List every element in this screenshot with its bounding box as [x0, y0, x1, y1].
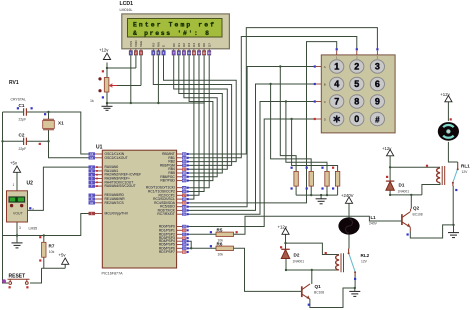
svg-text:5: 5 — [354, 79, 359, 89]
svg-text:D2: D2 — [294, 253, 300, 258]
svg-text:RA5/AN4/SS/C2OUT: RA5/AN4/SS/C2OUT — [105, 184, 136, 188]
svg-text:RV1: RV1 — [9, 80, 19, 86]
wire D2 bottom / RL2 coil bottom rail — [286, 259, 339, 270]
svg-text:Enter Temp ref: Enter Temp ref — [133, 22, 214, 29]
svg-text:CRYSTAL: CRYSTAL — [11, 98, 26, 102]
svg-text:OSC2/CLKOUT: OSC2/CLKOUT — [105, 156, 128, 160]
svg-text:240V: 240V — [369, 222, 378, 226]
LCD LCD1 body — [122, 14, 230, 49]
relay RL2 switch — [348, 249, 350, 253]
svg-text:R7: R7 — [49, 244, 55, 249]
svg-text:D6: D6 — [202, 43, 206, 47]
wire PIC RD4 jog to R6 net — [189, 241, 192, 248]
wire +12v to fan — [447, 102, 449, 121]
svg-text:B: B — [324, 82, 326, 86]
node keypad row C tap — [285, 100, 287, 102]
wire +240V to lamp L1 — [348, 204, 350, 219]
power +240V above lamp — [341, 193, 354, 203]
svg-text:A: A — [324, 65, 326, 69]
wire LCD D7 to PIC RB3 — [189, 56, 210, 188]
relay RL1 switch — [457, 162, 459, 169]
svg-text:D0: D0 — [172, 43, 176, 47]
microcontroller U1 body — [102, 150, 176, 268]
capacitor C2 — [24, 138, 27, 145]
svg-text:L1: L1 — [371, 215, 377, 220]
wire RL2 switch to ground — [354, 276, 356, 292]
diode D1 1N4001 — [386, 180, 394, 182]
svg-text:LM35: LM35 — [29, 227, 38, 231]
wire keypad col1 to PIC RB2 — [189, 42, 337, 203]
resistor R5 — [216, 232, 234, 236]
wire LCD D6 to PIC RB4 — [189, 56, 205, 192]
svg-text:D3: D3 — [187, 43, 191, 47]
potentiometer RV1 terminal dots — [98, 77, 101, 80]
svg-text:+240V: +240V — [341, 193, 354, 198]
svg-text:D4: D4 — [192, 43, 196, 47]
node VSS on ground rail — [130, 102, 132, 104]
svg-text:U1: U1 — [96, 145, 103, 151]
svg-text:7: 7 — [334, 97, 339, 107]
wire LCD D4 to PIC RB6 — [189, 56, 194, 200]
svg-text:LM016L: LM016L — [120, 8, 133, 12]
svg-text:RS: RS — [151, 43, 155, 47]
svg-text:9: 9 — [375, 97, 380, 107]
svg-text:C1: C1 — [19, 103, 25, 108]
svg-text:RW: RW — [157, 42, 161, 47]
wire LCD D5 to PIC RB5 — [189, 56, 200, 196]
svg-text:MCLR/Vpp/THV: MCLR/Vpp/THV — [105, 212, 129, 216]
wire +12v to D2 / RL2 coil junction — [286, 234, 340, 255]
svg-text:Q2: Q2 — [413, 206, 420, 211]
wire ground rail under RV1 — [107, 102, 205, 104]
resistor pulldown 1 — [294, 171, 298, 186]
svg-text:0: 0 — [354, 114, 359, 124]
LCD pin number boxes — [129, 51, 211, 56]
wire pulldown resistors to ground rail — [296, 186, 338, 199]
wire X1 pins — [48, 112, 50, 141]
resistor pulldown 3 — [325, 171, 329, 186]
wire reset to R7 bottom net — [30, 268, 42, 283]
state square at C2 — [39, 143, 41, 145]
svg-text:R5: R5 — [217, 227, 223, 232]
svg-text:R6: R6 — [217, 241, 223, 246]
relay RL1 coil — [437, 168, 440, 183]
wire RL1 switch to emitter/ground junction — [452, 186, 454, 225]
svg-text:3: 3 — [19, 226, 21, 230]
state squares at C1 — [17, 107, 19, 109]
wire R6 to Q1 base — [234, 248, 302, 291]
svg-text:D1: D1 — [399, 183, 405, 188]
svg-text:X1: X1 — [58, 121, 64, 126]
node RV1 ground junction — [106, 102, 108, 104]
wire Q2 collector riser — [410, 195, 412, 209]
node LM35 ground on MCLR rail — [16, 234, 18, 236]
svg-text:10k: 10k — [218, 252, 224, 256]
wire D1 bottom / RL1 coil bottom — [390, 183, 440, 195]
wire D2 top stub — [285, 243, 287, 249]
keypad column pin stubs — [337, 51, 378, 55]
svg-text:Q1: Q1 — [315, 284, 322, 289]
svg-text:RESET: RESET — [9, 274, 26, 280]
svg-text:1: 1 — [334, 62, 339, 72]
svg-text:1N4001: 1N4001 — [293, 259, 305, 263]
ground below pulldown resistors — [316, 199, 327, 204]
svg-text:RL1: RL1 — [461, 164, 470, 169]
node keypad row B tap — [269, 83, 271, 85]
fan motor — [438, 122, 459, 141]
svg-text:C2: C2 — [19, 132, 25, 137]
wire keypad row A to PIC RC5 — [189, 67, 314, 207]
wire C1 leads — [3, 111, 49, 113]
wire RV1 bottom to ground — [106, 92, 108, 103]
PIC right pin stubs, number boxes and state dots — [177, 152, 189, 254]
svg-text:D2: D2 — [182, 43, 186, 47]
svg-text:#: # — [375, 115, 380, 124]
wire +12v to RV1 top — [106, 63, 108, 78]
svg-text:RB7/PGD: RB7/PGD — [160, 179, 175, 183]
wire +12v to D1 / RL1 coil junction — [390, 156, 440, 168]
resistor pulldown 4 — [335, 171, 339, 186]
svg-text:12V: 12V — [361, 260, 368, 264]
state square at X1 — [44, 113, 46, 115]
wire fan to RL1 switch — [448, 142, 457, 162]
wire LCD RS to PIC RC4 — [153, 56, 231, 166]
wire lamp L1 to RL2 switch — [348, 234, 350, 249]
node crystal top junction — [47, 111, 49, 113]
crystal X1 — [43, 121, 55, 129]
state squares at RESET — [9, 286, 11, 288]
svg-text:1k: 1k — [90, 99, 94, 103]
svg-text:LCD1: LCD1 — [120, 1, 134, 7]
state square at LM35 VOUT with pin 2 — [29, 207, 31, 209]
node +12v D1 junction — [389, 166, 391, 168]
svg-text:10: 10 — [90, 201, 94, 205]
svg-text:40: 40 — [183, 179, 187, 183]
lamp L1 — [338, 217, 359, 234]
ground below RL2 switch — [349, 291, 360, 296]
svg-text:6: 6 — [375, 79, 380, 89]
svg-text:BC108: BC108 — [314, 290, 324, 294]
diode D2 1N4001 — [281, 248, 289, 250]
wire keypad col3 to PIC RB0 — [189, 28, 378, 154]
ground below RV1 — [102, 103, 113, 110]
keypad column state squares — [336, 48, 379, 50]
wire left bus C1/C2 common down to reset — [3, 112, 9, 283]
node pulldown rail joints — [310, 194, 312, 196]
svg-text:22pF: 22pF — [19, 118, 27, 122]
svg-text:2: 2 — [354, 62, 359, 72]
svg-text:D7: D7 — [207, 43, 211, 47]
power +12v above RV1 — [99, 48, 111, 60]
relay RL2 coil — [336, 255, 339, 270]
svg-text:BC108: BC108 — [413, 213, 423, 217]
wire LCD VSS to ground rail — [130, 56, 132, 104]
svg-text:8: 8 — [354, 97, 359, 107]
wire Q1 emitter to ground junction — [310, 288, 355, 308]
node keypad row A tap — [279, 65, 281, 67]
wire keypad col2 to PIC RB1 — [189, 37, 357, 158]
wire LCD RW to ground rail — [157, 56, 159, 104]
svg-text:+5v: +5v — [59, 253, 67, 258]
svg-text:VSS: VSS — [129, 41, 133, 47]
node keypad row D tap — [290, 118, 292, 120]
power +12v above D2 — [278, 225, 290, 235]
node R6/RD4 junction — [190, 247, 192, 249]
wire LCD D2 to PIC RC0 — [184, 56, 217, 177]
keypad row state squares — [314, 65, 316, 120]
wire crystal bottom net to PIC OSC2 — [49, 141, 89, 158]
wire LM35 pin3 to ground — [16, 222, 18, 242]
wire MCLR rail — [3, 214, 89, 236]
potentiometer RV1 body — [104, 78, 109, 93]
wire VDD net to +12v junction — [107, 56, 136, 69]
wire PIC RD2 to R5 — [189, 233, 217, 235]
svg-text:26: 26 — [183, 212, 187, 216]
wire keypad row B to PIC RC6 — [189, 84, 314, 210]
svg-text:VEE: VEE — [139, 41, 143, 47]
node left bus C2 junction — [1, 140, 3, 142]
power +12v above D1 — [382, 146, 394, 156]
wire keypad row C to PIC RC7 — [189, 102, 314, 215]
node RW on ground rail — [157, 102, 159, 104]
svg-text:VOUT: VOUT — [13, 212, 24, 216]
svg-text:3: 3 — [375, 62, 380, 72]
wire +5v to LM35 pin1 — [16, 173, 18, 191]
pulldown state squares — [291, 167, 335, 190]
keypad row pin stubs — [316, 67, 321, 120]
resistor pulldown 2 — [309, 171, 313, 186]
svg-text:RD7/PSP7: RD7/PSP7 — [159, 250, 175, 254]
svg-text:PIC16F877A: PIC16F877A — [102, 272, 124, 276]
svg-text:RE2/AN7/CS: RE2/AN7/CS — [105, 201, 125, 205]
capacitor C1 — [24, 108, 27, 115]
wire Q2 emitter to ground junction — [410, 225, 453, 238]
svg-text:VDD: VDD — [134, 40, 138, 47]
wire PIC RD6 to R6 — [189, 247, 217, 249]
wire LCD D0 to PIC RC2 — [174, 56, 228, 170]
wire LCD E to PIC RC3 — [164, 56, 237, 162]
wire keypad row D to PIC RD0 — [189, 119, 314, 227]
state square at R5 right — [236, 231, 238, 233]
svg-text:+5v: +5v — [10, 161, 18, 166]
svg-text:22pF: 22pF — [19, 147, 27, 151]
wire R7 bottom to +5v — [42, 257, 66, 268]
svg-text:RC7/RX/DT: RC7/RX/DT — [157, 212, 174, 216]
transistor Q2 BC108 — [401, 214, 403, 225]
LCD pin names — [129, 40, 211, 47]
node D2 bottom rail / Q1 collector — [311, 269, 313, 271]
wire R7 top stub — [43, 236, 45, 243]
svg-text:& press '#': 8: & press '#': 8 — [133, 30, 209, 37]
resistor R6 — [216, 246, 234, 250]
wire D1 top stub — [389, 167, 391, 181]
svg-text:12V: 12V — [462, 170, 469, 174]
wire RV1 wiper to LCD VEE — [117, 56, 141, 86]
ground below LM35 — [12, 243, 23, 248]
resistor R7 — [42, 242, 46, 257]
misc state squares — [9, 70, 238, 288]
power +5v at R7 bottom — [59, 253, 69, 265]
node RL2 ground junction — [354, 287, 356, 289]
PIC left pin stubs and number boxes — [89, 152, 103, 216]
temperature sensor U2 body — [7, 191, 28, 222]
wire C2 leads — [3, 140, 49, 142]
svg-text:1: 1 — [13, 183, 15, 187]
state squares at R7 — [39, 236, 41, 238]
wire crystal top net to PIC OSC1 — [49, 112, 89, 154]
node +12v D2 junction — [284, 242, 286, 244]
node VDD/+12v junction — [106, 67, 108, 69]
wire R5 to Q2 base — [234, 216, 402, 234]
potentiometer RV1 wiper arrow — [110, 84, 118, 87]
wire LCD D3 to PIC RB7 — [189, 56, 213, 181]
wire row A tap to pulldown resistor 1 — [280, 67, 296, 172]
transistor Q1 BC108 — [301, 286, 303, 297]
LCD pin stubs — [131, 49, 209, 51]
node crystal bottom junction — [47, 140, 49, 142]
keypad row labels — [324, 65, 327, 122]
keypad column labels — [336, 56, 379, 60]
wire row C tap to pulldown resistor 3 — [286, 102, 327, 172]
power +5v above LM35 — [10, 161, 21, 173]
pushbutton actuator dot — [2, 279, 6, 283]
wire LCD D1 to PIC RC1 — [179, 56, 223, 174]
svg-text:E: E — [162, 45, 166, 47]
svg-text:30: 30 — [183, 250, 187, 254]
state square at +12v RV1 — [102, 70, 104, 72]
svg-text:D1: D1 — [177, 43, 181, 47]
wire row B tap to pulldown resistor 2 — [271, 84, 312, 171]
wire Q1 collector riser — [311, 270, 313, 284]
svg-text:+12v: +12v — [99, 48, 109, 53]
keypad body — [321, 55, 395, 133]
node R7 top on MCLR rail — [43, 234, 45, 236]
svg-text:10k: 10k — [49, 250, 55, 254]
wire LM35 VOUT to PIC RA0 — [28, 167, 89, 210]
svg-text:U2: U2 — [27, 181, 34, 187]
power +12v above fan — [440, 92, 452, 102]
svg-text:RL2: RL2 — [361, 253, 370, 258]
node D1 bottom rail / Q2 collector — [410, 194, 412, 196]
node RL1 switch ground junction — [452, 224, 454, 226]
svg-text:14: 14 — [90, 156, 94, 160]
PIC pin name texts — [105, 152, 142, 216]
keypad buttons — [330, 60, 385, 126]
wire row D tap to pulldown resistor 4 — [292, 119, 338, 171]
svg-text:D5: D5 — [197, 43, 201, 47]
svg-text:4: 4 — [334, 79, 339, 89]
svg-text:1N4001: 1N4001 — [398, 189, 410, 193]
ground below Q2 emitter junction — [448, 233, 459, 238]
state square below RV1 — [102, 96, 104, 98]
